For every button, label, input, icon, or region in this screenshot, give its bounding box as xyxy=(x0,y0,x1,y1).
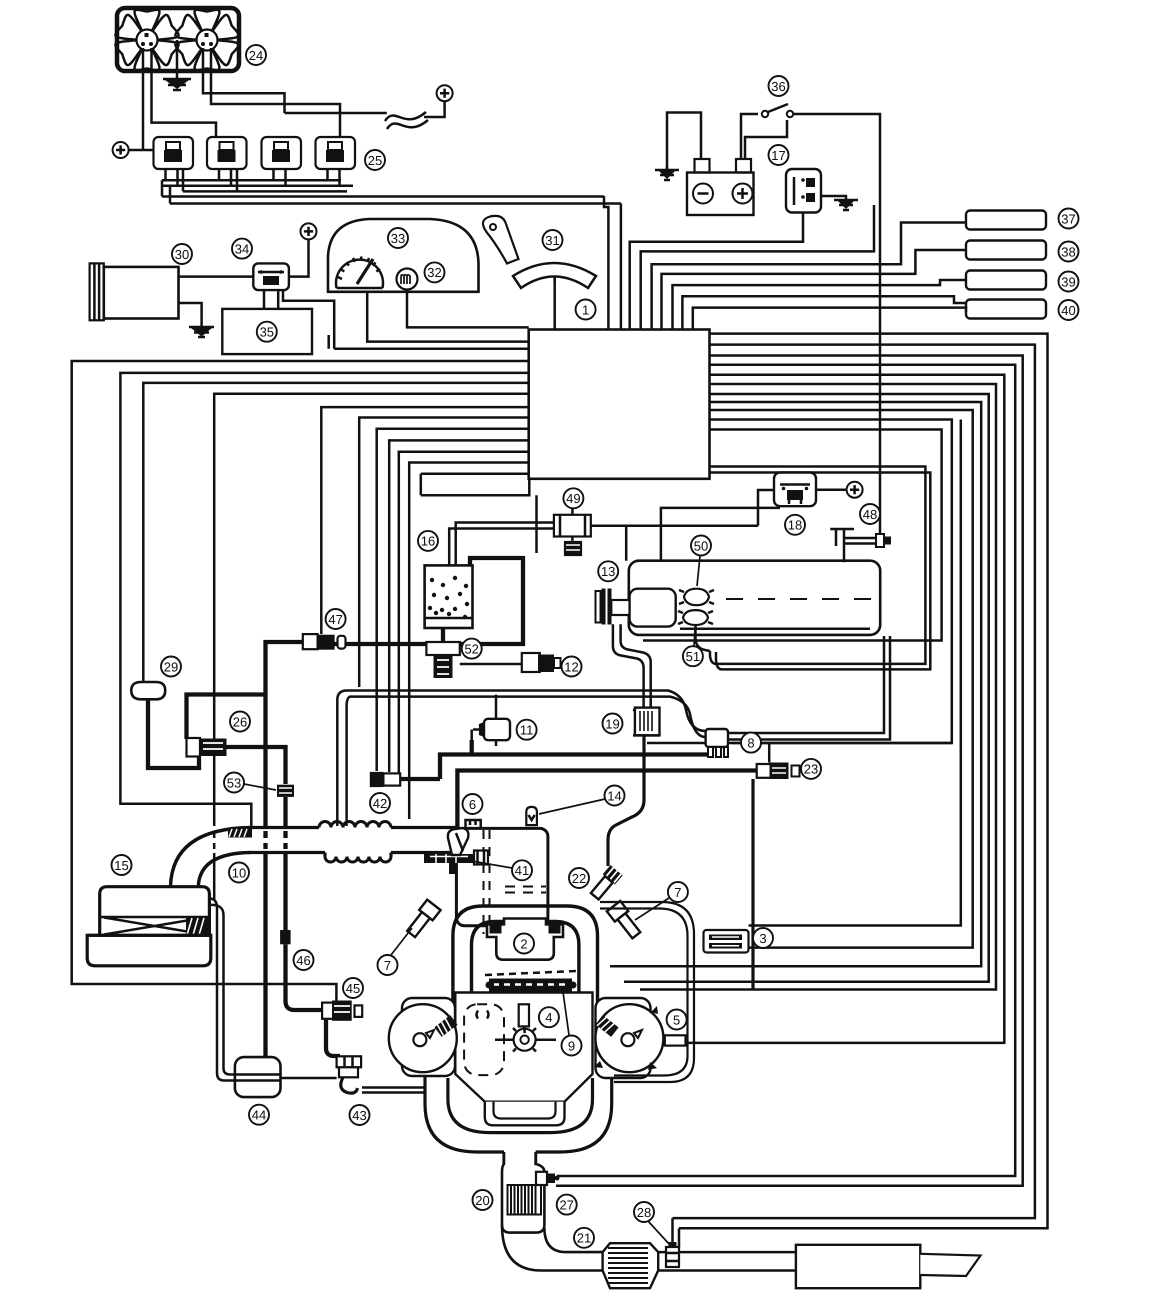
heavy wire 23 to throttle xyxy=(457,771,756,829)
svg-text:10: 10 xyxy=(232,865,246,880)
leader 51 xyxy=(694,628,695,646)
svg-text:34: 34 xyxy=(235,241,249,256)
svg-text:41: 41 xyxy=(515,863,529,878)
pipe 8 left pair a xyxy=(337,691,705,827)
heavy wire 47 to 26 xyxy=(187,642,303,739)
wire fuse to plus xyxy=(424,101,445,117)
sensor 28 fitting xyxy=(666,1247,679,1267)
fan2 lead b xyxy=(211,48,340,137)
wire left bundle 7 xyxy=(377,429,529,771)
wires 34 to 35 xyxy=(264,290,278,309)
callout label 53 xyxy=(224,773,244,793)
callout label 5 xyxy=(667,1010,687,1030)
svg-text:39: 39 xyxy=(1061,274,1075,289)
engine right pipe loop inner xyxy=(600,909,688,1076)
callout label 4 xyxy=(539,1007,559,1027)
callout label 18 xyxy=(785,515,805,535)
wire 19/8 junction xyxy=(647,742,706,745)
valve 42 xyxy=(370,772,384,787)
crank pulley xyxy=(514,1029,536,1051)
ECU top wire 5 to box39 xyxy=(673,280,967,330)
heavy wire 11 riser xyxy=(470,740,474,755)
callout label 45 xyxy=(343,978,363,998)
svg-text:29: 29 xyxy=(164,659,178,674)
box 39 xyxy=(966,271,1046,290)
ECU riser a xyxy=(604,196,608,330)
wire left bundle 8 xyxy=(389,440,529,772)
callout label 22 xyxy=(569,868,589,888)
callout label 26 xyxy=(230,712,250,732)
wire right bundle 1 xyxy=(679,334,1048,1229)
heavy wire 45 to 43 xyxy=(326,1019,340,1056)
svg-text:9: 9 xyxy=(568,1038,575,1053)
box 37 xyxy=(966,211,1046,230)
pipe 8 left pair b xyxy=(347,697,706,826)
wire right bundle 6 xyxy=(640,384,996,990)
exhaust outlet pipe xyxy=(504,1152,536,1181)
valve 12 xyxy=(522,653,540,672)
callout label 35 xyxy=(257,322,277,342)
air cleaner element X band xyxy=(100,917,210,935)
callout label 36 xyxy=(769,76,789,96)
air cleaner 15 upper box xyxy=(100,887,210,936)
vacuum bulb 29 xyxy=(131,682,165,699)
plus terminal fuse xyxy=(437,85,453,101)
valve 23 xyxy=(757,764,771,778)
box 38 xyxy=(966,241,1046,260)
wire right bundle 7 xyxy=(624,394,989,982)
svg-text:47: 47 xyxy=(328,612,342,627)
vapor pipe 51 to ECU a xyxy=(710,467,926,664)
duct top corrugation xyxy=(319,822,391,828)
svg-text:18: 18 xyxy=(788,518,802,533)
callout label 20 xyxy=(473,1190,493,1210)
svg-text:37: 37 xyxy=(1061,211,1075,226)
svg-text:25: 25 xyxy=(368,153,382,168)
fuel tank xyxy=(629,561,880,635)
pipe 8 to tank riser a xyxy=(728,636,884,733)
svg-text:26: 26 xyxy=(233,714,247,729)
fan 2 hub xyxy=(197,30,218,51)
battery minus symbol xyxy=(693,184,713,204)
svg-text:52: 52 xyxy=(464,641,478,656)
actuator 30 pulley xyxy=(90,263,104,320)
svg-text:31: 31 xyxy=(545,233,559,248)
fan 1 hub xyxy=(137,30,158,51)
callout label 48 xyxy=(860,504,880,524)
wire 3 top xyxy=(749,420,961,926)
ECU box U1 xyxy=(529,330,710,479)
heavy wire 47 branch down to canister 44 xyxy=(263,695,267,827)
callout label 3 xyxy=(753,928,773,948)
intake U pipe inner xyxy=(472,922,579,1009)
heavy wire 42 to riser xyxy=(400,777,440,781)
wire right bundle 2 xyxy=(673,345,1035,1219)
svg-text:19: 19 xyxy=(605,716,619,731)
wire left bundle 9 xyxy=(399,452,529,777)
accelerator pedal 31 arm xyxy=(483,216,519,264)
callout label 8 xyxy=(741,733,761,753)
svg-text:1: 1 xyxy=(582,302,589,317)
valve 51 xyxy=(683,610,708,625)
wire left bundle 11 zigzag xyxy=(421,474,537,553)
callout label 34 xyxy=(232,239,252,259)
ECU top wire 1 to coil xyxy=(630,212,803,330)
leader 53 xyxy=(244,784,276,790)
pump top vent line xyxy=(661,508,780,561)
valve 47 xyxy=(303,634,318,649)
svg-text:4: 4 xyxy=(545,1010,552,1025)
callout label 27 xyxy=(557,1195,577,1215)
callout label 46 xyxy=(294,950,314,970)
fan2 lead a xyxy=(203,48,285,113)
svg-text:6: 6 xyxy=(469,797,476,812)
fuel sender 48 xyxy=(830,528,854,563)
svg-text:22: 22 xyxy=(572,871,586,886)
sensor 22 connector xyxy=(589,865,623,901)
callout label 17 xyxy=(769,145,789,165)
svg-text:40: 40 xyxy=(1061,303,1075,318)
callout label 14 xyxy=(605,786,625,806)
right cylinder barrel xyxy=(596,998,651,1078)
accelerator pedal 31 sector xyxy=(513,263,596,288)
heavy wire 26 to 53 to 46 xyxy=(227,747,286,784)
callout label 7 left xyxy=(378,955,398,975)
leader 50 xyxy=(697,556,700,586)
duct bottom line 2 xyxy=(391,851,456,854)
tailpipe xyxy=(920,1254,980,1276)
fusible link xyxy=(385,112,428,129)
valve 52 xyxy=(426,642,459,655)
callout label 37 xyxy=(1059,209,1079,229)
engine right pipe loop outer xyxy=(600,902,694,1082)
fuel level dashes xyxy=(726,598,872,600)
svg-text:12: 12 xyxy=(564,659,578,674)
callout label 52 xyxy=(462,639,482,659)
svg-text:8: 8 xyxy=(747,735,754,750)
catalytic converter 20 shell xyxy=(502,1152,544,1233)
fan shroud ground wire xyxy=(176,40,179,78)
callout label 9 xyxy=(562,1036,582,1056)
callout label 21 xyxy=(574,1228,594,1248)
throttle body xyxy=(456,828,548,925)
callout label 47 xyxy=(326,609,346,629)
ground symbol battery xyxy=(655,166,679,180)
callout label 49 xyxy=(563,488,583,508)
svg-text:27: 27 xyxy=(559,1197,573,1212)
svg-text:30: 30 xyxy=(175,247,189,262)
svg-text:7: 7 xyxy=(384,958,391,973)
svg-text:45: 45 xyxy=(346,981,360,996)
ground symbol coil xyxy=(834,200,858,210)
callout label 30 xyxy=(172,244,192,264)
wire right bundle 11 under tank xyxy=(643,430,942,641)
callout label 50 xyxy=(691,536,711,556)
ECU top wire 3 to box37 xyxy=(652,223,966,330)
svg-text:51: 51 xyxy=(686,649,700,664)
heavy wire 46 to 45 xyxy=(286,944,323,1010)
callout label 2 xyxy=(514,934,534,954)
intake duct bend inner xyxy=(198,853,251,887)
box 40 xyxy=(966,300,1046,319)
dash crossing x214 xyxy=(213,832,216,849)
wire right bundle 8 xyxy=(610,402,981,966)
callout label 11 xyxy=(517,720,537,740)
svg-text:46: 46 xyxy=(296,953,310,968)
relay legs right xyxy=(178,169,340,186)
svg-text:13: 13 xyxy=(601,564,615,579)
radiator fan shroud 24 xyxy=(117,8,239,71)
ECU top wire 6 to box40 xyxy=(682,296,966,329)
pipe 19 to throttle xyxy=(608,735,644,866)
svg-text:28: 28 xyxy=(637,1205,651,1220)
wire 23 riser xyxy=(768,743,771,763)
valve 11 xyxy=(484,719,510,740)
valve 26 xyxy=(187,738,201,757)
ground symbol 30 xyxy=(189,327,214,337)
heavy wire 29 to 26 xyxy=(148,699,199,768)
dash crossing x285 xyxy=(283,831,287,849)
throttle lever 6 xyxy=(448,828,469,855)
callout label 32 xyxy=(425,262,445,282)
callout label 12 xyxy=(562,657,582,677)
wire left bundle 2 xyxy=(120,373,528,829)
wire cluster to ECU xyxy=(367,292,529,342)
plus terminal 18 xyxy=(847,482,863,498)
plus terminal relays left xyxy=(113,142,129,158)
svg-text:20: 20 xyxy=(475,1193,489,1208)
right spark plug into head xyxy=(595,1015,618,1037)
fuel gauge motor 32 xyxy=(397,269,418,290)
leader 7 right xyxy=(635,898,669,920)
callout label 28 xyxy=(634,1202,654,1222)
wire 32 to ECU xyxy=(407,290,529,328)
wire switch to right xyxy=(793,114,880,534)
callout label 44 xyxy=(249,1105,269,1125)
battery case xyxy=(687,173,754,216)
wire 30 to 34 xyxy=(179,275,254,278)
svg-text:3: 3 xyxy=(759,931,766,946)
relay 4 case xyxy=(316,137,356,169)
left spark plug into head xyxy=(434,1015,457,1037)
duct top line 2 xyxy=(391,826,456,829)
valve 50 xyxy=(684,589,709,606)
pump outlet S pipe a xyxy=(613,624,644,707)
block dashed chamber xyxy=(464,1004,504,1075)
fan 2 blades xyxy=(175,10,238,70)
actuator 30 body xyxy=(104,267,179,319)
canister to 52 pipe xyxy=(441,628,445,643)
inline filter 53 xyxy=(277,785,294,797)
box 35 xyxy=(222,309,312,354)
callout label 42 xyxy=(370,793,390,813)
TPS 6 xyxy=(466,820,481,828)
relay legs left xyxy=(166,169,328,180)
wire plus to relay1 xyxy=(129,149,154,152)
battery terminal negative post xyxy=(695,159,710,173)
svg-text:48: 48 xyxy=(863,507,877,522)
wire left bundle 3 xyxy=(143,383,528,681)
callout label 15 xyxy=(112,855,132,875)
fitting 8 xyxy=(706,729,728,747)
wire 18 to plus xyxy=(816,488,847,491)
relay 2 case xyxy=(207,137,247,169)
exhaust loop inner xyxy=(448,1078,593,1133)
svg-text:2: 2 xyxy=(520,936,527,951)
relay 18 xyxy=(774,473,816,507)
svg-text:35: 35 xyxy=(260,325,274,340)
ECU top wire 2 xyxy=(641,205,874,330)
wire left bundle 1 xyxy=(72,361,529,1002)
pipe 51 outlet xyxy=(696,625,711,651)
svg-text:43: 43 xyxy=(352,1108,366,1123)
wire battery neg to ground xyxy=(667,113,701,171)
valve 49 body xyxy=(554,515,591,537)
svg-text:33: 33 xyxy=(391,231,405,246)
wire 30 to ground xyxy=(179,303,202,326)
svg-text:42: 42 xyxy=(373,796,387,811)
wire 49 right to tank and 18 xyxy=(591,490,774,561)
component 3 xyxy=(704,930,749,953)
pipe 8 to tank riser b xyxy=(728,636,890,740)
svg-text:24: 24 xyxy=(249,48,263,63)
svg-text:38: 38 xyxy=(1061,244,1075,259)
heavy wire 8 bottom to 42 area xyxy=(440,755,708,780)
wire right bundle 9 xyxy=(710,410,973,948)
wire 52 to 12 xyxy=(460,663,522,666)
callout label 51 xyxy=(683,646,703,666)
left cylinder barrel xyxy=(402,998,455,1076)
wire right bundle 3 xyxy=(556,356,1023,1186)
left cylinder head xyxy=(389,1004,457,1072)
svg-text:5: 5 xyxy=(673,1012,680,1027)
callout label 16 xyxy=(418,531,438,551)
svg-text:21: 21 xyxy=(577,1231,591,1246)
leader 7 left xyxy=(391,928,412,955)
wire right bundle 5 xyxy=(686,375,1004,1043)
idle assembly 41 xyxy=(424,854,474,863)
speedometer needle xyxy=(357,259,373,284)
svg-text:50: 50 xyxy=(694,538,708,553)
fuel pump 13 xyxy=(630,589,676,627)
wire left bundle 4 xyxy=(214,394,529,826)
wire left bundle 5 xyxy=(321,407,528,634)
callout label 31 xyxy=(543,230,563,250)
wire right bundle 10 xyxy=(710,420,952,744)
oil rod 4 xyxy=(519,1004,529,1026)
intake U pipe outer xyxy=(453,906,598,1008)
resonator 21 xyxy=(603,1243,659,1288)
O2 fitting 27 xyxy=(536,1172,547,1185)
engine block xyxy=(455,993,592,1102)
ECU riser b xyxy=(620,204,623,330)
relay long wire 2 xyxy=(170,202,621,205)
svg-text:17: 17 xyxy=(771,148,785,163)
right plug boot 7 xyxy=(607,901,643,941)
leader 28 xyxy=(648,1221,670,1245)
fitting 43 xyxy=(337,1056,362,1067)
relay long wire 1 xyxy=(162,195,604,198)
wire 8 to ECU riser xyxy=(728,742,952,745)
duct top line xyxy=(251,826,319,829)
callout label 1 xyxy=(576,300,596,320)
svg-text:7: 7 xyxy=(674,885,681,900)
wire left bundle 4 lower xyxy=(213,853,216,900)
wire 34 to plus xyxy=(289,239,309,276)
pipe to muffler xyxy=(658,1252,796,1270)
sensor 5 xyxy=(665,1035,686,1045)
fan1 lead a xyxy=(142,48,145,150)
callout label 7 right xyxy=(668,882,688,902)
switch 36 xyxy=(762,111,768,117)
relay 1 case xyxy=(154,137,194,169)
svg-text:11: 11 xyxy=(520,723,534,738)
canister 16 charcoal dots xyxy=(428,576,469,619)
muffler xyxy=(796,1245,920,1288)
pipe 23 down riser xyxy=(751,779,754,990)
left plug boot 7 xyxy=(404,900,440,940)
duct bottom line xyxy=(251,851,325,854)
callout label 41 xyxy=(512,860,532,880)
callout label 29 xyxy=(161,657,181,677)
air cleaner 15 lower box xyxy=(87,935,211,966)
wire switch lower branch xyxy=(745,120,787,159)
wire right bundle 4 xyxy=(557,365,1015,1176)
leader 14 xyxy=(539,799,605,814)
callout label 40 xyxy=(1059,300,1079,320)
leader 9 xyxy=(563,992,569,1035)
instrument cluster 33 xyxy=(328,219,479,292)
callout label 23 xyxy=(801,759,821,779)
canister 44 xyxy=(235,1057,281,1097)
relay bus 3 xyxy=(183,190,347,193)
callout label 43 xyxy=(350,1105,370,1125)
plus terminal 34 xyxy=(301,223,317,239)
callout label 33 xyxy=(388,228,408,248)
pump outlet S pipe b xyxy=(621,624,651,707)
battery terminal positive post xyxy=(736,159,751,173)
vapor pipe 51 to ECU b xyxy=(710,473,931,670)
relay 3 case xyxy=(262,137,302,169)
right cylinder head xyxy=(595,1004,663,1072)
callout label 38 xyxy=(1059,242,1079,262)
air cleaner to 44 pipe a xyxy=(209,899,236,1081)
relay bus 2 xyxy=(162,185,353,188)
down elbow from cat xyxy=(502,1225,603,1271)
callout label 6 xyxy=(463,794,483,814)
callout label 39 xyxy=(1059,272,1079,292)
svg-text:49: 49 xyxy=(566,491,580,506)
svg-text:53: 53 xyxy=(227,775,241,790)
canister 16 body xyxy=(425,565,473,628)
canister 16 bottom band xyxy=(425,617,473,620)
callout label 25 xyxy=(365,150,385,170)
wire left bundle 6 xyxy=(359,418,529,688)
catalyst element xyxy=(508,1185,542,1215)
wire coil to ground xyxy=(821,196,846,200)
wire 28 risers xyxy=(673,1218,680,1247)
wire battery pos to switch xyxy=(741,114,758,159)
relay bus 1 xyxy=(162,179,341,182)
callout label 13 xyxy=(598,561,618,581)
dash crossing x265 xyxy=(263,831,267,849)
svg-text:32: 32 xyxy=(427,265,441,280)
exhaust loop outer xyxy=(425,1076,612,1152)
svg-text:14: 14 xyxy=(607,788,621,803)
ignition coil 17 xyxy=(786,169,821,213)
callout label 10 xyxy=(229,863,249,883)
relay bus risers xyxy=(162,169,237,204)
